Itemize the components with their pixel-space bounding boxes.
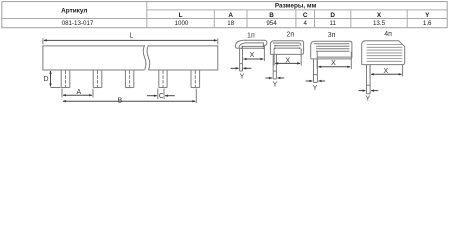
svg-text:X: X	[377, 12, 382, 19]
svg-text:13.5: 13.5	[373, 20, 386, 27]
pin 5	[191, 71, 200, 88]
4p cap outline	[362, 41, 405, 65]
svg-text:3п: 3п	[328, 32, 336, 39]
busbar body	[43, 45, 218, 70]
3p pin	[314, 59, 318, 83]
dimension B	[195, 89, 197, 103]
svg-text:Y: Y	[240, 73, 245, 80]
3p dimension Y	[306, 80, 326, 82]
2p cap outline	[270, 41, 303, 55]
svg-text:Артикул: Артикул	[61, 8, 87, 15]
svg-text:X: X	[331, 60, 336, 67]
1p dimension X	[263, 46, 265, 61]
svg-text:18: 18	[227, 20, 234, 27]
dimension L extension lines	[43, 38, 218, 44]
svg-text:4: 4	[303, 20, 307, 27]
pin 2	[93, 71, 102, 88]
dimension A	[62, 89, 93, 98]
dimension D	[51, 87, 61, 89]
svg-text:D: D	[330, 12, 335, 19]
table: data row	[62, 20, 432, 27]
svg-text:X: X	[250, 52, 255, 59]
svg-text:D: D	[43, 76, 48, 83]
svg-text:C: C	[159, 93, 164, 100]
svg-text:B: B	[117, 97, 122, 104]
svg-text:1п: 1п	[247, 32, 255, 39]
svg-text:4п: 4п	[384, 31, 392, 38]
svg-text:A: A	[76, 89, 81, 96]
1p pin	[240, 47, 243, 72]
svg-text:C: C	[303, 12, 308, 19]
svg-text:Y: Y	[273, 81, 278, 88]
break squiggle right	[147, 45, 150, 70]
1p insulating tube outline	[235, 40, 267, 48]
3p dimension X	[317, 52, 351, 69]
2p dimension Y	[265, 77, 284, 79]
table: header row 2	[179, 12, 430, 19]
svg-text:081-13-017: 081-13-017	[62, 20, 94, 27]
4p dimension X	[370, 65, 403, 76]
svg-text:2п: 2п	[286, 32, 294, 39]
svg-text:L: L	[179, 12, 183, 19]
dimension L line	[44, 39, 217, 41]
svg-text:X: X	[285, 57, 290, 64]
svg-text:X: X	[383, 68, 388, 75]
4p pin	[367, 65, 371, 94]
1p dimension Y	[231, 67, 252, 69]
2p pin	[273, 54, 276, 79]
dimension C	[158, 89, 164, 99]
2p dimension X	[274, 49, 301, 66]
3p cap outline	[311, 41, 352, 59]
4p dimension Y	[358, 90, 378, 92]
svg-text:1.6: 1.6	[423, 20, 432, 27]
pin 3	[125, 71, 133, 88]
svg-text:1000: 1000	[175, 20, 189, 27]
pin 1	[61, 71, 70, 88]
svg-text:11: 11	[329, 20, 336, 27]
1p metal plate with hooked ends	[242, 46, 264, 48]
table: outer border	[2, 2, 447, 28]
svg-text:954: 954	[266, 20, 277, 27]
svg-text:A: A	[228, 12, 233, 19]
svg-text:Размеры, мм: Размеры, мм	[275, 3, 317, 10]
svg-text:B: B	[269, 12, 274, 19]
svg-text:Y: Y	[365, 95, 370, 102]
svg-text:Y: Y	[313, 85, 318, 92]
break squiggle left	[143, 45, 146, 70]
svg-text:Y: Y	[425, 12, 430, 19]
table: grid lines	[2, 2, 447, 28]
svg-text:L: L	[129, 33, 133, 40]
pin 4	[159, 71, 167, 88]
